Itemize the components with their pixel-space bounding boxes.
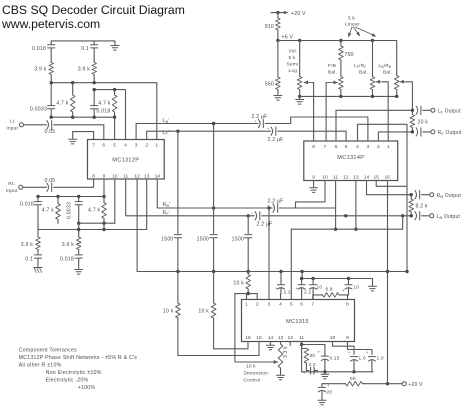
- svg-text:12: 12: [134, 173, 140, 179]
- wire pin11 lateral to 0.15: [302, 345, 325, 355]
- wire main bus: [137, 271, 407, 273]
- svg-text:F/B: F/B: [328, 63, 336, 69]
- svg-text:2: 2: [377, 144, 380, 150]
- capacitor 0.018 (Lt col3 lower): [91, 90, 111, 118]
- svg-text:7: 7: [323, 144, 326, 150]
- node rail3-col1: [50, 116, 53, 119]
- node rail1-col1: [50, 81, 53, 84]
- svg-text:6.8: 6.8: [326, 287, 333, 293]
- wiper LB/RB to LF output: [400, 80, 413, 111]
- wiper F/B to U2 pin7: [326, 80, 338, 141]
- capacitor 2.2 (U3 pin6): [296, 277, 312, 300]
- U2 bottom pin numbers: [312, 175, 390, 181]
- U3 bottom pin numbers: [245, 335, 349, 341]
- svg-text:1: 1: [245, 302, 248, 308]
- capacitor 0.018 (Rt c1): [20, 197, 42, 230]
- svg-text:1500: 1500: [161, 237, 173, 243]
- resistor 3.9k (Rt c1): [21, 230, 41, 255]
- svg-text:Input: Input: [6, 188, 18, 194]
- svg-text:+: +: [327, 383, 330, 388]
- svg-text:LB Output: LB Output: [437, 214, 461, 220]
- svg-text:4.7 k: 4.7 k: [98, 101, 110, 107]
- resistor 10k (col c): [233, 272, 250, 294]
- svg-text:MC1315: MC1315: [286, 319, 309, 325]
- wire col1500a upper: [177, 131, 179, 233]
- node +6V: [276, 34, 293, 42]
- potentiometer LB/RB Bal: [379, 63, 400, 96]
- potentiometer Vol 5k: [287, 41, 303, 97]
- svg-text:15: 15: [256, 335, 262, 341]
- wire pin12 to bus: [136, 179, 138, 272]
- svg-text:10: 10: [317, 285, 323, 291]
- node LF-prime col1500a: [176, 130, 179, 133]
- U3 top pin numbers: [245, 302, 349, 308]
- svg-text:750: 750: [345, 52, 354, 58]
- ground sub-rail: [349, 279, 377, 291]
- svg-text:4: 4: [124, 143, 127, 149]
- wire U3 pin12 stub: [289, 342, 291, 346]
- wire col1500b upper: [212, 122, 215, 234]
- svg-text:+: +: [317, 350, 320, 355]
- wire +20V bottom rail: [322, 383, 346, 385]
- svg-text:8: 8: [312, 144, 315, 150]
- svg-text:11: 11: [299, 335, 304, 341]
- wire LF out: [423, 109, 431, 111]
- capacitor 1500 (col b): [197, 235, 218, 272]
- capacitor 2.2uF (RF-prime): [251, 212, 273, 228]
- svg-text:9: 9: [103, 173, 106, 179]
- capacitor 0.0033 (Rt c3): [66, 197, 82, 224]
- svg-text:910: 910: [265, 24, 274, 30]
- terminal RF output: [431, 130, 462, 136]
- wire RF-prime to LB output: [262, 215, 412, 217]
- svg-text:5: 5: [290, 302, 293, 308]
- svg-text:+: +: [342, 288, 345, 293]
- svg-text:20: 20: [327, 390, 333, 396]
- node rail1-col3: [93, 81, 96, 84]
- resistor 4.7k (Rt c2): [42, 197, 61, 224]
- terminal Rt input: [6, 181, 23, 194]
- svg-text:3.9 k: 3.9 k: [21, 242, 33, 248]
- wire railA Rt: [38, 196, 104, 198]
- U1 bottom pin numbers: [92, 173, 160, 179]
- svg-text:10 k: 10 k: [198, 309, 209, 315]
- node railB-c4: [102, 222, 105, 225]
- resistor 3.9k (Lt col1): [34, 63, 53, 83]
- wire RB out: [422, 194, 430, 196]
- node subrail c10a: [311, 277, 314, 280]
- svg-text:RF': RF': [163, 210, 171, 216]
- wiper LF/RF to U2 pin1: [376, 80, 388, 141]
- svg-text:3: 3: [268, 302, 271, 308]
- svg-text:10: 10: [112, 173, 118, 179]
- resistor 20k: [410, 110, 428, 132]
- svg-text:Vol.: Vol.: [289, 49, 298, 55]
- svg-text:16: 16: [245, 335, 251, 341]
- node bus cola: [176, 270, 179, 273]
- svg-text:0.018: 0.018: [32, 46, 46, 52]
- resistor 910: [265, 13, 280, 41]
- wire pin10 stub: [114, 179, 116, 223]
- svg-text:10: 10: [322, 175, 328, 181]
- svg-text:9: 9: [346, 335, 349, 341]
- svg-text:2.2: 2.2: [309, 362, 316, 368]
- svg-text:15: 15: [373, 175, 379, 181]
- wire pin9 stub: [103, 179, 105, 197]
- wire col1500c upper: [247, 216, 249, 234]
- node RF-prime U2pin12: [344, 214, 347, 217]
- svg-text:10: 10: [354, 285, 360, 291]
- node rail vol: [298, 39, 301, 42]
- svg-text:2.2 µF: 2.2 µF: [268, 198, 284, 204]
- capacitor RF out: [416, 128, 421, 136]
- wire pot bottom rail: [300, 95, 397, 97]
- svg-text:3.3 k: 3.3 k: [283, 346, 289, 358]
- wire LF-prime to U2 pin5: [278, 131, 346, 141]
- wire railB Rt: [79, 222, 115, 224]
- capacitor 2.2uF (LF-prime): [267, 127, 284, 143]
- node prail p2: [371, 95, 374, 98]
- potentiometer LF/RF Bal: [354, 41, 375, 97]
- svg-text:MC1312P Phase Shift Networks -: MC1312P Phase Shift Networks - ±5% R & C…: [19, 355, 138, 361]
- svg-text:1.0: 1.0: [377, 356, 384, 362]
- svg-text:10 k: 10 k: [163, 309, 174, 315]
- svg-text:2: 2: [256, 302, 259, 308]
- node rail3-col4: [113, 116, 116, 119]
- svg-text:0.0033: 0.0033: [30, 106, 47, 112]
- svg-text:+20 V: +20 V: [409, 382, 424, 388]
- ground cap 20: [318, 400, 326, 405]
- svg-text:4: 4: [279, 302, 282, 308]
- node railC-c3: [77, 228, 80, 231]
- resistor 30: [302, 349, 316, 364]
- svg-text:1500: 1500: [232, 237, 244, 243]
- svg-text:1: 1: [387, 144, 390, 150]
- resistor 750: [339, 41, 354, 77]
- node LF out: [411, 109, 414, 112]
- svg-text:MC1314P: MC1314P: [337, 155, 364, 161]
- node RF out: [411, 130, 414, 133]
- ground cap rail: [321, 370, 329, 379]
- svg-text:LF Output: LF Output: [438, 108, 462, 114]
- node railB-c3: [77, 222, 80, 225]
- wire colc to U3 pins 1-2: [235, 292, 257, 300]
- wire c4 railB-railC: [103, 223, 105, 229]
- resistor 560: [265, 41, 280, 95]
- svg-text:Input: Input: [6, 126, 18, 132]
- resistor 8.2k: [409, 195, 428, 216]
- wire RF-prime (pin11): [126, 179, 255, 216]
- svg-text:10: 10: [330, 335, 336, 341]
- svg-text:www.petervis.com: www.petervis.com: [1, 17, 100, 31]
- svg-text:4.7 k: 4.7 k: [56, 101, 68, 107]
- wire Rt input to pin8: [54, 179, 94, 187]
- wire +6V rail: [278, 41, 397, 76]
- svg-text:+: +: [296, 286, 299, 291]
- svg-text:5 k: 5 k: [348, 16, 355, 22]
- capacitor 0.05 (Lt input): [45, 121, 56, 136]
- terminal LB output: [430, 214, 461, 220]
- ground U3 pin14: [267, 342, 275, 350]
- node railA-c1: [36, 195, 39, 198]
- resistor 10k (col b): [198, 272, 216, 349]
- terminal LF output: [431, 108, 461, 114]
- svg-text:7: 7: [92, 143, 95, 149]
- op-amp U3 MC1315 box: [242, 300, 355, 342]
- node railA-c2: [56, 195, 59, 198]
- node sub-rail stub: [300, 270, 303, 273]
- wire LB line to 229 line: [291, 216, 402, 229]
- resistor 4.7k (Lt col2): [56, 83, 75, 118]
- ground U2 pin9: [310, 181, 318, 193]
- capacitor 10 (U3 pin7): [310, 279, 323, 300]
- wire rail3 Lt: [51, 116, 114, 118]
- wiper dimension control: [235, 360, 278, 364]
- wire to +20V terminal: [388, 383, 403, 385]
- capacitor 1500 (col c): [232, 235, 252, 272]
- svg-text:+: +: [275, 286, 278, 291]
- svg-text:50: 50: [350, 376, 356, 382]
- terminal RB output: [430, 193, 462, 199]
- svg-text:0.05: 0.05: [45, 178, 56, 184]
- node rail3-col2: [71, 116, 74, 119]
- svg-text:5: 5: [345, 144, 348, 150]
- svg-text:All other R ±10%: All other R ±10%: [19, 363, 62, 369]
- wire +20V feed vertical: [386, 272, 389, 386]
- wire U2 pin13 down: [354, 181, 357, 231]
- svg-text:Log: Log: [289, 68, 298, 74]
- svg-text:Semi: Semi: [287, 62, 299, 68]
- capacitor 2.2uF (LB-prime): [252, 114, 268, 128]
- potentiometer F/B Bal: [328, 63, 343, 96]
- svg-text:13: 13: [353, 175, 359, 181]
- svg-text:Rt.: Rt.: [8, 181, 15, 187]
- svg-text:0.018: 0.018: [20, 202, 34, 208]
- wire U2 pin16 down: [386, 181, 389, 274]
- wire LB out: [422, 215, 430, 217]
- svg-text:560: 560: [265, 82, 274, 88]
- svg-text:+100%: +100%: [78, 385, 96, 391]
- ground 560: [274, 96, 282, 101]
- node RF-prime col3: [247, 214, 250, 217]
- svg-text:14: 14: [268, 335, 274, 341]
- svg-text:1500: 1500: [197, 237, 209, 243]
- svg-text:2.2: 2.2: [284, 290, 291, 296]
- label dimension control: [244, 364, 269, 384]
- svg-text:20 k: 20 k: [418, 120, 429, 126]
- wire RF out: [423, 131, 431, 133]
- wire LF-prime (pin2): [147, 130, 271, 140]
- ground top rail: [111, 46, 119, 51]
- capacitor 1.0 b: [366, 350, 384, 372]
- svg-text:14: 14: [155, 173, 161, 179]
- component tolerances note: [19, 348, 138, 392]
- label 5k Linear: [345, 16, 376, 38]
- svg-text:12: 12: [287, 335, 293, 341]
- capacitor 20 (electrolytic): [318, 383, 332, 400]
- node RF-prime corner: [401, 214, 404, 217]
- svg-text:RB Output: RB Output: [437, 193, 462, 199]
- svg-text:0.1: 0.1: [25, 257, 33, 263]
- svg-text:0.018: 0.018: [60, 257, 74, 263]
- resistor 3.9k (Rt c3): [62, 230, 81, 255]
- ground Rt c1: [34, 268, 42, 273]
- svg-text:2.2: 2.2: [304, 290, 311, 296]
- ground near pin7: [69, 132, 94, 144]
- node railA-c4: [102, 195, 105, 198]
- node prail p3: [395, 95, 398, 98]
- ground dimension pot: [277, 375, 285, 380]
- svg-text:1: 1: [155, 143, 158, 149]
- svg-text:LF': LF': [163, 130, 170, 136]
- svg-text:+6 V: +6 V: [282, 34, 294, 40]
- capacitor 2.2 (bottom): [303, 362, 318, 375]
- svg-text:0.05: 0.05: [45, 129, 56, 135]
- svg-text:10 k: 10 k: [233, 281, 244, 287]
- capacitor 2.2 (U3 pin4): [275, 270, 291, 300]
- capacitor RB out: [415, 191, 420, 199]
- resistor 50: [346, 376, 388, 386]
- terminal +20V top: [271, 11, 306, 17]
- node rail2-col3: [93, 88, 96, 91]
- svg-text:Dimension: Dimension: [244, 371, 269, 377]
- svg-text:13: 13: [144, 173, 150, 179]
- wire railC Rt: [38, 179, 147, 230]
- node railC-c4: [102, 228, 105, 231]
- svg-text:CBS SQ Decoder Circuit Diagram: CBS SQ Decoder Circuit Diagram: [2, 3, 185, 17]
- svg-text:0.018: 0.018: [97, 109, 111, 115]
- wiper Vol to U2 pin8: [304, 80, 314, 141]
- svg-text:LB': LB': [163, 118, 170, 124]
- svg-text:+: +: [348, 350, 351, 355]
- U1 top pin numbers: [92, 143, 158, 149]
- capacitor 1500 (col a): [161, 235, 181, 272]
- wire Lt input: [24, 124, 47, 126]
- svg-text:Bal.: Bal.: [328, 70, 337, 76]
- node LB out: [410, 214, 413, 217]
- node rail 750: [339, 39, 342, 42]
- svg-text:0.15: 0.15: [330, 356, 340, 362]
- svg-text:MC1312P: MC1312P: [112, 158, 139, 164]
- svg-text:3: 3: [367, 144, 370, 150]
- capacitor LB out: [415, 212, 420, 220]
- svg-text:0.1: 0.1: [81, 46, 89, 52]
- ground Rt c3: [75, 270, 83, 275]
- svg-text:3.9 k: 3.9 k: [34, 67, 46, 73]
- svg-text:3: 3: [135, 143, 138, 149]
- svg-text:5 k: 5 k: [289, 55, 296, 61]
- node RB-prime U2pin3riser: [267, 206, 270, 209]
- node bus colc: [247, 270, 250, 273]
- svg-text:4: 4: [356, 144, 359, 150]
- resistor 10k (col a): [163, 272, 180, 356]
- svg-text:16: 16: [384, 175, 390, 181]
- resistor 3.9k (Lt col3): [78, 63, 97, 83]
- wire U3 pin9 to cap2: [348, 342, 372, 355]
- wire Rt input: [23, 186, 47, 188]
- svg-text:3.9 k: 3.9 k: [62, 242, 74, 248]
- node RB out: [410, 193, 413, 196]
- capacitor 0.15: [317, 350, 339, 372]
- svg-text:8: 8: [346, 302, 349, 308]
- node railA-c3: [77, 195, 80, 198]
- svg-text:3.9 k: 3.9 k: [78, 67, 90, 73]
- resistor 4.7k (Rt c4): [88, 197, 106, 224]
- wire U2pin3riser down: [268, 208, 270, 300]
- svg-text:5: 5: [113, 143, 116, 149]
- svg-text:7: 7: [311, 302, 314, 308]
- wire rail2 Lt: [94, 90, 125, 140]
- svg-text:RB': RB': [163, 202, 171, 208]
- svg-text:+: +: [366, 350, 369, 355]
- title text: [1, 3, 185, 31]
- ground Vol pot: [296, 95, 304, 104]
- wire colb to U3 pin16: [214, 342, 248, 349]
- svg-text:Bal.: Bal.: [383, 70, 392, 76]
- wire dimension wiper line: [234, 294, 236, 362]
- svg-text:Electrolytic -20%: Electrolytic -20%: [46, 378, 89, 384]
- wire U2 pin14 to RB output: [367, 181, 412, 195]
- wire U2 pin6 to LF output: [336, 110, 412, 141]
- wire pin15 lateral: [376, 181, 407, 187]
- resistor 4.7k (Lt col4): [98, 90, 117, 118]
- wire cap common rail: [302, 371, 373, 373]
- capacitor 0.1 (Rt c1): [25, 255, 41, 267]
- capacitor 10 (U3 pin8): [342, 277, 360, 300]
- op-amp U1 MC1312P box: [88, 140, 165, 180]
- wire U2 pin11 down: [334, 181, 337, 231]
- U2 top pin numbers: [312, 144, 390, 150]
- svg-text:6: 6: [102, 143, 105, 149]
- wire LB-prime (pin3): [136, 118, 258, 140]
- svg-text:0.0033: 0.0033: [66, 202, 72, 219]
- node pin4 loop bus: [405, 270, 408, 273]
- node rail pot2: [371, 39, 374, 42]
- wire RB-prime right: [280, 207, 336, 209]
- svg-text:2.2 µF: 2.2 µF: [268, 137, 284, 143]
- wire rail1 Lt: [51, 83, 157, 140]
- node prail vol: [339, 95, 342, 98]
- svg-text:9: 9: [312, 175, 315, 181]
- wire LB-prime to U2 pin3: [265, 117, 368, 141]
- capacitor 0.018 (Rt c3b): [60, 255, 82, 269]
- svg-text:8.2 k: 8.2 k: [416, 204, 428, 210]
- wire rail3 to pin5: [114, 117, 116, 139]
- svg-text:+20 V: +20 V: [291, 11, 306, 17]
- svg-text:6: 6: [335, 144, 338, 150]
- svg-text:8: 8: [92, 173, 95, 179]
- capacitor 2.2uF (RB-prime): [267, 198, 284, 212]
- svg-text:Non Electrolytic ±10%: Non Electrolytic ±10%: [46, 370, 102, 376]
- wire U3 pin10 to cap1: [333, 342, 355, 355]
- capacitor 0.05 (Rt input): [45, 178, 56, 191]
- wire U2 pin2 to RF output: [378, 132, 413, 141]
- svg-text:14: 14: [364, 175, 370, 181]
- svg-text:1.0: 1.0: [359, 356, 366, 362]
- wire RB-prime (pin14): [157, 179, 272, 208]
- op-amp U2 MC1314P box: [304, 141, 398, 181]
- wire c3 railB-railC: [78, 223, 80, 229]
- resistor 6.8: [313, 287, 348, 298]
- wire top rail Lt network: [51, 41, 115, 45]
- node cap1 rail: [352, 370, 355, 373]
- capacitor 0.0033 (Lt col1): [30, 83, 55, 118]
- svg-text:Component Tolerances: Component Tolerances: [19, 348, 78, 354]
- terminal Lt input: [6, 119, 23, 132]
- node bus colb: [212, 270, 215, 273]
- svg-text:Bal.: Bal.: [359, 70, 368, 76]
- svg-text:10 k: 10 k: [246, 364, 256, 370]
